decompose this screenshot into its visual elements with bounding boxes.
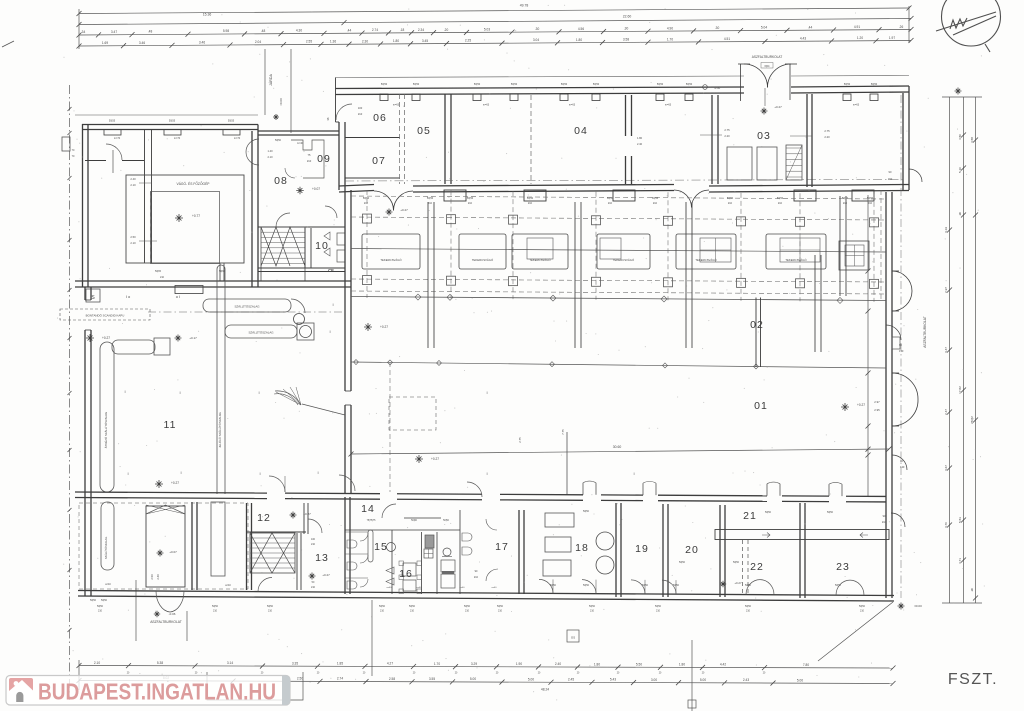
wash fountain omega (443, 548, 451, 556)
room 08 level mark (296, 187, 304, 195)
svg-text:4.50: 4.50 (958, 134, 962, 140)
niche in west wing top wall (175, 286, 203, 294)
svg-text:50|50: 50|50 (686, 83, 693, 86)
svg-text:50|50: 50|50 (527, 197, 534, 200)
short wall between 02 and 01 (755, 298, 757, 368)
svg-text:210: 210 (608, 202, 613, 205)
shower fixtures (425, 535, 434, 548)
svg-text:50|50: 50|50 (745, 605, 752, 608)
svg-text:2.50: 2.50 (297, 677, 303, 681)
machine band vertical dashed lines and squares (366, 190, 368, 298)
svg-text:+0.27: +0.27 (380, 325, 388, 329)
svg-text:50|50: 50|50 (589, 605, 596, 608)
svg-text:.30: .30 (715, 26, 720, 30)
svg-text:4.90: 4.90 (667, 26, 673, 30)
svg-text:5.03: 5.03 (484, 28, 490, 32)
svg-text:11: 11 (164, 419, 177, 431)
sink circle room 15 (387, 543, 396, 552)
svg-text:28.82: 28.82 (970, 416, 974, 424)
svg-text:1.97: 1.97 (889, 36, 895, 40)
svg-text:03: 03 (757, 130, 771, 142)
svg-text:130: 130 (900, 465, 905, 469)
svg-text:210: 210 (465, 610, 470, 613)
svg-text:06: 06 (373, 112, 387, 124)
svg-text:3.29: 3.29 (471, 662, 477, 666)
right wall small arc south (892, 455, 907, 470)
svg-text:-0.06: -0.06 (169, 612, 176, 616)
svg-text:.90: .90 (970, 588, 974, 593)
svg-text:50|50: 50|50 (212, 605, 219, 608)
svg-text:210: 210 (778, 202, 783, 205)
wall between room 04 and 03 with door (625, 95, 627, 136)
machine band dashed lines (351, 196, 886, 199)
loading dock below wall (207, 672, 303, 700)
vago level mark (175, 214, 183, 222)
svg-text:50|50: 50|50 (511, 83, 518, 86)
svg-text:ÁTNÉZŐ SZÁLLÍTÓSZALAG: ÁTNÉZŐ SZÁLLÍTÓSZALAG (103, 412, 108, 448)
north wing top wall pilasters (380, 94, 388, 101)
conveyor 1 (203, 299, 291, 312)
dimension chain bottom row 2 (79, 681, 893, 684)
svg-text:2.40: 2.40 (555, 662, 561, 666)
svg-text:2.50: 2.50 (130, 235, 136, 239)
room 12 level mark (290, 512, 297, 519)
svg-text:5.43: 5.43 (610, 678, 616, 682)
svg-text:4.51: 4.51 (724, 37, 730, 41)
svg-text:50|50: 50|50 (583, 510, 590, 513)
wall right of room 05 (444, 95, 446, 185)
L conveyor vertical (100, 342, 114, 492)
svg-text:5.10: 5.10 (958, 167, 962, 173)
svg-text:50|50: 50|50 (464, 605, 471, 608)
svg-text:210: 210 (311, 543, 316, 546)
svg-text:50|55: 50|55 (169, 120, 176, 123)
svg-text:1.80: 1.80 (679, 663, 685, 667)
svg-text:3.58: 3.58 (623, 38, 629, 42)
svg-text:50|50: 50|50 (859, 605, 866, 608)
svg-text:50|50: 50|50 (101, 599, 108, 602)
svg-text:TEKERCSVÁGÓ: TEKERCSVÁGÓ (380, 257, 402, 262)
svg-text:a=40: a=40 (492, 587, 498, 589)
right wall small arc north (909, 169, 922, 182)
svg-text:I: I (258, 390, 259, 395)
svg-text:50|55: 50|55 (109, 120, 116, 123)
svg-text:210: 210 (428, 202, 433, 205)
svg-text:3.47: 3.47 (111, 30, 117, 34)
dimension chain top row 3 (79, 30, 911, 36)
svg-text:4.43: 4.43 (800, 36, 806, 40)
svg-text:4.71: 4.71 (958, 558, 962, 564)
svg-text:2.40: 2.40 (130, 177, 136, 181)
svg-text:1.80: 1.80 (393, 39, 399, 43)
svg-text:+0.07: +0.07 (312, 187, 320, 191)
svg-text:210: 210 (311, 586, 316, 589)
svg-text:210: 210 (590, 610, 595, 613)
right wall door bulge B (892, 373, 918, 399)
svg-text:30.60: 30.60 (613, 445, 622, 449)
bottom wall double doors (746, 580, 760, 595)
svg-text:22.60: 22.60 (623, 15, 632, 19)
svg-text:GS: GS (571, 636, 575, 640)
level mark mid (155, 480, 163, 488)
hall right wall (885, 192, 887, 598)
svg-text:02: 02 (750, 319, 764, 331)
svg-text:a=40: a=40 (387, 587, 393, 589)
svg-text:2.10: 2.10 (267, 155, 273, 159)
west wing left wall (84, 287, 86, 300)
svg-text:2.20: 2.20 (824, 135, 830, 139)
svg-text:3.00: 3.00 (651, 678, 657, 682)
svg-text:2.95: 2.95 (874, 408, 880, 412)
svg-text:2.34: 2.34 (418, 28, 424, 32)
svg-text:4.42: 4.42 (720, 663, 726, 667)
hall vertical partition line (566, 432, 568, 495)
svg-text:5.50: 5.50 (636, 662, 642, 666)
svg-text:5.98: 5.98 (223, 29, 229, 33)
svg-text:50|90: 50|90 (411, 520, 417, 522)
svg-text:I: I (486, 471, 487, 476)
svg-text:TEKERCSVÁGÓ: TEKERCSVÁGÓ (529, 257, 551, 262)
left end connector of top chains (78, 9, 80, 49)
level mark below band door 1 (386, 209, 393, 216)
dimension chain bottom row 1 (79, 666, 893, 669)
room 06 door arc and labels (336, 104, 352, 120)
wc fixtures left (347, 540, 357, 548)
svg-text:SZÁLLÍTÓSZALAG: SZÁLLÍTÓSZALAG (234, 304, 260, 309)
svg-text:12: 12 (257, 512, 271, 524)
right chain star (955, 88, 962, 95)
logo house icon (9, 678, 33, 702)
svg-text:50|50: 50|50 (871, 83, 878, 86)
svg-text:±0.00: ±0.00 (914, 604, 922, 608)
south-west dashed enclosure (79, 503, 248, 589)
svg-text:210: 210 (498, 610, 503, 613)
west block top wall (82, 124, 258, 126)
south wing top wall door arcs (382, 504, 396, 518)
svg-text:210: 210 (528, 202, 533, 205)
svg-text:50|50: 50|50 (733, 561, 740, 564)
svg-text:01: 01 (754, 400, 768, 412)
svg-text:7.80: 7.80 (803, 663, 809, 667)
svg-text:2.58: 2.58 (389, 677, 395, 681)
west wing top wall (75, 280, 351, 282)
svg-text:17.82: 17.82 (958, 386, 962, 394)
room 10 walls (304, 228, 306, 268)
svg-text:3.46: 3.46 (139, 41, 145, 45)
svg-text:50|50: 50|50 (97, 605, 104, 608)
north wing top wall (336, 87, 745, 89)
main entrance door jambs (740, 64, 742, 101)
machine inner rects (527, 238, 553, 259)
svg-text:o I: o I (176, 294, 180, 299)
svg-text:1.70: 1.70 (667, 37, 673, 41)
logo right gray tab (282, 676, 290, 706)
stairs block mid (261, 227, 305, 281)
svg-text:.48: .48 (148, 30, 153, 34)
south wing partition walls (191, 502, 193, 590)
door arc bottom wall left (258, 578, 272, 592)
svg-text:m=63: m=63 (665, 104, 672, 107)
svg-text:210: 210 (98, 610, 103, 613)
svg-text:13: 13 (315, 552, 329, 564)
svg-text:15: 15 (374, 541, 388, 553)
svg-text:.30: .30 (624, 27, 629, 31)
svg-text:+0.27: +0.27 (857, 403, 865, 407)
door room 11 to 12 (269, 476, 285, 492)
svg-text:2.75: 2.75 (518, 437, 522, 443)
svg-text:17: 17 (495, 541, 509, 553)
svg-text:1.90: 1.90 (516, 662, 522, 666)
south wing top wall (75, 492, 267, 493)
svg-text:FSZT.: FSZT. (948, 671, 998, 688)
svg-text:210: 210 (728, 202, 733, 205)
svg-text:+0.77: +0.77 (192, 214, 200, 218)
svg-text:1.36: 1.36 (330, 40, 336, 44)
svg-text:.44: .44 (808, 25, 813, 29)
svg-text:50|50: 50|50 (679, 561, 686, 564)
hall fan door lower-left (275, 391, 301, 405)
svg-text:23: 23 (836, 561, 850, 573)
svg-text:3.46: 3.46 (199, 40, 205, 44)
svg-text:I: I (332, 302, 333, 307)
svg-text:2.40: 2.40 (637, 142, 643, 146)
jarda walk lines (264, 49, 266, 115)
level mark bottom right (898, 603, 905, 610)
svg-text:TEKERCSVÁGÓ: TEKERCSVÁGÓ (472, 257, 494, 262)
svg-text:I: I (329, 329, 330, 334)
svg-text:50|50: 50|50 (90, 599, 97, 602)
svg-text:5.51: 5.51 (958, 517, 962, 523)
hall dashed rect (389, 397, 436, 430)
svg-text:I: I (124, 389, 125, 394)
svg-text:50|50: 50|50 (363, 197, 370, 200)
svg-text:I: I (259, 471, 260, 476)
svg-text:3.19: 3.19 (944, 227, 948, 233)
svg-text:20: 20 (685, 544, 699, 556)
double door below shaft (156, 591, 170, 612)
svg-text:210: 210 (843, 202, 848, 205)
connector below vago room (219, 264, 221, 282)
south wing top wall door openings (582, 483, 584, 495)
roller columns (427, 202, 429, 348)
svg-text:a=40: a=40 (460, 587, 466, 589)
svg-text:I: I (486, 390, 487, 395)
svg-text:50|50: 50|50 (655, 605, 662, 608)
west block inner wall vertical (144, 130, 146, 264)
svg-text:+0.27: +0.27 (431, 457, 439, 461)
dash-dot line above band bottom wall (345, 180, 903, 182)
svg-text:I: I (317, 470, 318, 475)
svg-text:210: 210 (160, 276, 165, 279)
svg-text:BONTANDÓ SCANDID KAPU: BONTANDÓ SCANDID KAPU (86, 313, 125, 318)
S box (86, 289, 100, 302)
svg-text:3.04: 3.04 (533, 38, 539, 42)
svg-text:2.04: 2.04 (255, 40, 261, 44)
svg-text:2.50: 2.50 (150, 574, 154, 580)
svg-text:2.10: 2.10 (130, 183, 136, 187)
north wing right end wall (902, 93, 904, 190)
svg-text:2.97: 2.97 (944, 287, 948, 293)
svg-text:50|50: 50|50 (657, 83, 664, 86)
svg-text:100: 100 (358, 106, 363, 110)
svg-text:m=70: m=70 (234, 137, 241, 140)
svg-text:50|50: 50|50 (561, 83, 568, 86)
svg-text:50|65: 50|65 (155, 270, 162, 273)
svg-text:4.56: 4.56 (578, 27, 584, 31)
svg-text:.34: .34 (81, 30, 86, 34)
hall interior right dim chain (867, 195, 869, 497)
svg-text:50|50: 50|50 (593, 83, 600, 86)
urinal trough (368, 530, 373, 562)
svg-text:.44: .44 (347, 28, 352, 32)
svg-text:+0.07: +0.07 (169, 550, 177, 554)
svg-text:2.45: 2.45 (568, 678, 574, 682)
mid conveyor vertical (216, 269, 218, 494)
svg-text:50|50: 50|50 (275, 139, 282, 142)
svg-text:+0.27: +0.27 (322, 573, 330, 577)
svg-text:2.55: 2.55 (306, 40, 312, 44)
svg-text:50|50: 50|50 (844, 83, 851, 86)
svg-text:VÁGÓ- ÉS FŐZŐGÉP: VÁGÓ- ÉS FŐZŐGÉP (177, 181, 211, 186)
svg-text:.48: .48 (261, 29, 266, 33)
svg-text:210: 210 (746, 610, 751, 613)
svg-text:2.47: 2.47 (944, 409, 948, 415)
level mark west wing (86, 334, 94, 342)
svg-text:ASZFALTBURKOLAT: ASZFALTBURKOLAT (923, 316, 927, 348)
svg-text:19: 19 (635, 543, 649, 555)
svg-text:50|50: 50|50 (727, 197, 734, 200)
room 08 top wall (258, 130, 339, 132)
door arcs in north wing bottom wall opening 1 (374, 191, 394, 211)
svg-text:.30: .30 (535, 27, 540, 31)
svg-text:50|50: 50|50 (381, 83, 388, 86)
hall interior dim line 30.60 (351, 449, 889, 454)
svg-text:5.38: 5.38 (157, 661, 163, 665)
svg-text:50|50: 50|50 (497, 605, 504, 608)
svg-text:210: 210 (468, 202, 473, 205)
svg-text:1.40: 1.40 (267, 149, 273, 153)
svg-text:14: 14 (361, 503, 375, 515)
left room conveyor (101, 502, 114, 570)
svg-text:6|04: 6|04 (764, 64, 770, 68)
toilet stall doors (360, 533, 368, 541)
toilet block partitions (345, 529, 392, 531)
svg-text:JELÖLŐ SZÁLLÍTÓSZALAG: JELÖLŐ SZÁLLÍTÓSZALAG (217, 412, 222, 448)
svg-text:+0.27: +0.27 (774, 105, 782, 109)
svg-text:100: 100 (311, 538, 316, 541)
svg-text:210: 210 (307, 159, 312, 163)
svg-text:05: 05 (417, 125, 431, 137)
right wall door mid (886, 325, 901, 340)
small machine right (839, 241, 869, 270)
svg-text:3.45: 3.45 (422, 39, 428, 43)
svg-text:I: I (179, 390, 180, 395)
stairwell walls south (296, 533, 298, 590)
svg-text:16: 16 (399, 568, 413, 580)
machine band center line (351, 249, 886, 253)
room 10 fixtures (324, 232, 330, 240)
svg-text:18: 18 (575, 542, 589, 554)
svg-text:04: 04 (574, 125, 588, 137)
svg-text:m=70: m=70 (114, 137, 121, 140)
svg-text:210: 210 (653, 202, 658, 205)
svg-text:210: 210 (213, 610, 218, 613)
svg-text:ASZFALTBURKOLAT: ASZFALTBURKOLAT (752, 55, 783, 59)
svg-text:50|50: 50|50 (474, 83, 481, 86)
dimension chain top total 49.78 (79, 8, 909, 14)
courtyard thin line (75, 114, 258, 116)
water heater (441, 560, 455, 572)
conveyor rect right (211, 502, 225, 576)
svg-text:3.35: 3.35 (292, 661, 298, 665)
svg-text:3.67: 3.67 (944, 465, 948, 471)
dimension chain top 15.36 / 22.60 (79, 19, 911, 25)
north wing bottom wall (339, 185, 374, 187)
entrance level circle mark (703, 85, 708, 90)
door arcs in north wing bottom wall opening 2 (674, 190, 692, 208)
svg-text:50|50: 50|50 (583, 584, 590, 587)
dashed partition rooms 22 (742, 540, 744, 595)
svg-text:210: 210 (364, 202, 369, 205)
svg-text:210: 210 (380, 610, 385, 613)
room 18 rects (545, 513, 574, 527)
svg-text:08: 08 (274, 175, 288, 187)
svg-text:210: 210 (868, 202, 873, 205)
door arcs 17 (486, 519, 497, 530)
svg-text:+0.27: +0.27 (400, 208, 408, 212)
svg-text:2.75: 2.75 (824, 129, 830, 133)
wall right of room 03 (806, 94, 808, 187)
room 16 door triangles (386, 567, 394, 574)
south wing bottom wall (78, 591, 894, 596)
svg-text:2.10: 2.10 (130, 241, 136, 245)
svg-text:2.97: 2.97 (874, 400, 880, 404)
svg-text:200: 200 (888, 177, 893, 181)
svg-text:5.00: 5.00 (528, 677, 534, 681)
room 12 door arc (308, 519, 322, 533)
svg-text:1.80: 1.80 (576, 38, 582, 42)
room 16 tables (403, 563, 416, 576)
svg-text:+0.27: +0.27 (102, 336, 110, 340)
svg-text:I: I (180, 470, 181, 475)
svg-text:TEKERCSVÁGÓ: TEKERCSVÁGÓ (785, 257, 807, 262)
svg-text:±0.00: ±0.00 (279, 98, 283, 106)
svg-text:4.91: 4.91 (854, 25, 860, 29)
right wall door bulge A (892, 271, 912, 291)
room 03 cupboard rects (727, 147, 752, 180)
toilet stall partitions (345, 531, 368, 533)
svg-text:210: 210 (656, 610, 661, 613)
svg-text:50|50: 50|50 (443, 520, 449, 522)
svg-text:2.40: 2.40 (156, 574, 160, 580)
dash-dot line outside right wall (900, 95, 902, 598)
svg-text:210: 210 (410, 610, 415, 613)
svg-text:5.00: 5.00 (470, 677, 476, 681)
conveyor 2 (225, 325, 297, 338)
svg-text:4.27: 4.27 (387, 662, 393, 666)
room 09 alcove (291, 140, 324, 178)
svg-text:2.25: 2.25 (465, 39, 471, 43)
svg-text:50|50: 50|50 (765, 511, 772, 514)
svg-text:m=63: m=63 (569, 104, 576, 107)
svg-text:75|75|75: 75|75|75 (367, 520, 377, 522)
shaft with hatch (146, 506, 185, 587)
svg-text:2.74: 2.74 (372, 28, 378, 32)
double door west of room 08 (246, 139, 259, 152)
partition dashed in room 04 (530, 95, 532, 184)
level mark room 22 (720, 581, 726, 587)
room 18 circles (596, 532, 614, 550)
